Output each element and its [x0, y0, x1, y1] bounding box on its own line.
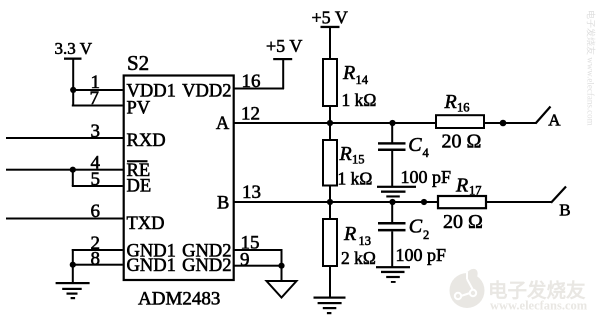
- node junction A/C4: [389, 120, 395, 126]
- watermark text 电子发烧友 (bottom right): [488, 279, 586, 302]
- IC part name ADM2483: [138, 289, 220, 310]
- pin name RXD: [127, 131, 166, 151]
- wire pin 8 GND1: [72, 264, 123, 266]
- wire C4 to ground: [391, 151, 393, 187]
- svg-text:1 kΩ: 1 kΩ: [342, 90, 377, 110]
- switch A blade: [536, 107, 551, 124]
- supply +5V bar (pin16): [273, 58, 292, 60]
- resistor R13 body: [323, 219, 337, 266]
- resistor R15 body: [323, 140, 337, 186]
- resistor R16 value 20 Ω: [442, 131, 482, 153]
- node junction B/R15/R13: [327, 199, 333, 205]
- wire net B to R13: [329, 202, 331, 219]
- svg-text:16: 16: [242, 71, 261, 92]
- IC S2 ADM2483 body: [124, 76, 234, 281]
- resistor R14 value 1 kΩ: [342, 90, 377, 110]
- wire vertical 15 to 9: [281, 249, 283, 266]
- node junction A/R14/R15: [327, 120, 333, 126]
- svg-text:16: 16: [457, 101, 470, 115]
- svg-text:C: C: [408, 134, 422, 156]
- resistor R14 label: [342, 62, 369, 87]
- pin name DE: [127, 177, 152, 197]
- supply +5V label (pin16): [266, 36, 302, 56]
- resistor R16 body: [436, 115, 484, 128]
- svg-text:17: 17: [469, 184, 482, 198]
- pin number 4: [91, 153, 101, 174]
- wire R13 to ground: [329, 266, 331, 298]
- pin name VDD2: [182, 82, 231, 102]
- wire pin 3 RXD: [6, 137, 124, 139]
- supply 3.3V label: [55, 39, 93, 58]
- pin number 12: [241, 104, 260, 125]
- ground (signal triangle, pin 9): [267, 281, 297, 298]
- svg-text:3.3 V: 3.3 V: [55, 39, 93, 58]
- pin name B: [217, 193, 229, 213]
- resistor R15 value 1 kΩ: [338, 169, 373, 189]
- node junction pins 2-8: [70, 262, 76, 268]
- pin number 5: [91, 169, 101, 190]
- svg-text:15: 15: [352, 153, 365, 167]
- resistor R16 label: [444, 91, 470, 115]
- wire R14 to net A: [329, 106, 331, 123]
- pin number 7: [90, 88, 100, 109]
- wire net A to C4: [391, 123, 393, 143]
- wire R15 to net B: [329, 186, 331, 203]
- pin number 15: [241, 233, 260, 254]
- pin number 13: [242, 182, 261, 203]
- wire pin 2 GND1: [72, 249, 123, 251]
- node junction before R17: [421, 199, 427, 205]
- wire stub to triangle ground: [281, 266, 283, 282]
- wire net A horizontal (pin 12): [233, 122, 536, 124]
- svg-text:12: 12: [241, 104, 260, 125]
- svg-text:20 Ω: 20 Ω: [442, 131, 482, 153]
- supply +5V label (R14): [312, 8, 348, 28]
- wire pin 5 DE: [72, 185, 123, 187]
- pin number 2: [91, 233, 101, 254]
- wire pin 15 GND2: [233, 249, 283, 251]
- node junction after R16: [500, 120, 507, 127]
- wire C2 to ground: [391, 231, 393, 267]
- wire pin 1: [73, 89, 123, 91]
- svg-text:+5 V: +5 V: [266, 36, 302, 56]
- svg-text:5: 5: [91, 169, 101, 190]
- wire +5V vertical (pin16): [282, 59, 284, 89]
- wire pin 9 GND2: [233, 265, 283, 267]
- resistor R17 value 20 Ω: [443, 211, 483, 233]
- svg-text:DE: DE: [127, 177, 152, 197]
- svg-text:+5 V: +5 V: [312, 8, 348, 28]
- wire net B to C2: [391, 202, 393, 223]
- terminal label A: [548, 110, 561, 129]
- svg-text:13: 13: [359, 234, 372, 248]
- svg-text:3: 3: [91, 121, 101, 142]
- svg-text:C: C: [409, 216, 423, 238]
- svg-text:2 kΩ: 2 kΩ: [341, 248, 376, 268]
- pin name TXD: [127, 214, 165, 234]
- svg-text:6: 6: [91, 201, 101, 222]
- svg-text:100 pF: 100 pF: [396, 245, 447, 265]
- wire pin 6 TXD: [6, 218, 124, 220]
- pin number 8: [91, 249, 101, 270]
- capacitor C4 value 100 pF: [401, 167, 452, 187]
- svg-text:A: A: [548, 110, 561, 129]
- pin name PV: [127, 99, 151, 119]
- wire vertical 4 to 5: [72, 170, 74, 186]
- pin number 9: [240, 249, 250, 270]
- resistor R13 value 2 kΩ: [341, 248, 376, 268]
- svg-text:14: 14: [356, 73, 369, 87]
- resistor R17 body: [438, 196, 486, 208]
- ground (left, pins 2/8): [56, 282, 90, 299]
- supply 3.3V bar symbol: [64, 58, 82, 60]
- watermark text www.elecfans.com (bottom right): [490, 299, 588, 313]
- svg-text:R: R: [455, 175, 468, 197]
- wire pin 16 VDD2: [233, 88, 284, 90]
- IC designator S2: [127, 51, 149, 75]
- svg-text:PV: PV: [127, 99, 151, 119]
- svg-text:R: R: [343, 223, 356, 245]
- pin name GND1 (row 2): [127, 256, 176, 276]
- svg-text:20 Ω: 20 Ω: [443, 211, 483, 233]
- ground (below C4): [377, 186, 416, 198]
- wire 3.3V vertical to pins 1/7: [72, 58, 74, 106]
- supply +5V bar (R14): [321, 26, 340, 28]
- resistor R13 label: [343, 223, 371, 248]
- pin name GND2 (row 2): [182, 256, 231, 276]
- resistor R15 label: [339, 143, 365, 167]
- capacitor C2 plates: [378, 222, 406, 231]
- resistor R17 label: [455, 175, 482, 198]
- node junction pins 15-9: [278, 263, 284, 269]
- svg-text:S2: S2: [127, 51, 149, 75]
- svg-text:B: B: [559, 201, 570, 220]
- pin name GND1 (row 1): [127, 241, 176, 261]
- svg-text:2: 2: [423, 228, 429, 242]
- pin number 3: [91, 121, 101, 142]
- svg-text:R: R: [444, 91, 457, 113]
- capacitor C2 value 100 pF: [396, 245, 447, 265]
- wire pin 4 RE: [6, 169, 124, 171]
- watermark logo circle (bottom right): [450, 269, 485, 308]
- svg-text:ADM2483: ADM2483: [138, 289, 220, 310]
- watermark vertical elecfans (top right): [586, 10, 597, 126]
- wire +5V to R14: [329, 27, 331, 59]
- svg-text:100 pF: 100 pF: [401, 167, 452, 187]
- svg-text:R: R: [339, 143, 352, 165]
- pin name VDD1: [127, 82, 176, 102]
- wire net A to R15: [329, 123, 331, 140]
- svg-text:A: A: [216, 114, 230, 134]
- svg-text:B: B: [217, 193, 229, 213]
- pin number 1: [91, 72, 101, 93]
- svg-text:www.elecfans.com: www.elecfans.com: [490, 299, 588, 313]
- node junction pins 4-5: [70, 167, 76, 173]
- pin number 6: [91, 201, 101, 222]
- node junction B/C2: [389, 199, 395, 205]
- pin name RE with overline: [127, 160, 151, 181]
- capacitor C4 label: [408, 134, 429, 160]
- svg-text:1 kΩ: 1 kΩ: [338, 169, 373, 189]
- svg-text:GND2: GND2: [182, 256, 231, 276]
- terminal label B: [559, 201, 570, 220]
- resistor R14 body: [323, 59, 337, 106]
- svg-text:7: 7: [90, 88, 100, 109]
- svg-text:13: 13: [242, 182, 261, 203]
- node junction pins 1-7: [70, 87, 76, 93]
- svg-text:RXD: RXD: [127, 131, 166, 151]
- pin number 16: [242, 71, 261, 92]
- capacitor C2 label: [409, 216, 429, 243]
- pin name A: [216, 114, 230, 134]
- svg-text:VDD2: VDD2: [182, 82, 231, 102]
- svg-text:8: 8: [91, 249, 101, 270]
- svg-text:4: 4: [423, 146, 430, 160]
- wire net B horizontal (pin 13): [233, 201, 551, 203]
- svg-text:R: R: [342, 62, 355, 84]
- svg-text:TXD: TXD: [127, 214, 165, 234]
- svg-text:电子发烧友 www.elecfans.com: 电子发烧友 www.elecfans.com: [586, 10, 597, 126]
- switch B blade: [551, 187, 566, 203]
- svg-text:9: 9: [240, 249, 250, 270]
- ground (below C2): [376, 266, 410, 283]
- pin name GND2 (row 1): [182, 241, 231, 261]
- svg-text:GND1: GND1: [127, 256, 176, 276]
- ground (below R13): [314, 297, 346, 315]
- wire pin 7: [72, 105, 123, 107]
- capacitor C4 plates: [378, 142, 406, 151]
- wire vertical 2 to 8 to ground: [72, 249, 74, 283]
